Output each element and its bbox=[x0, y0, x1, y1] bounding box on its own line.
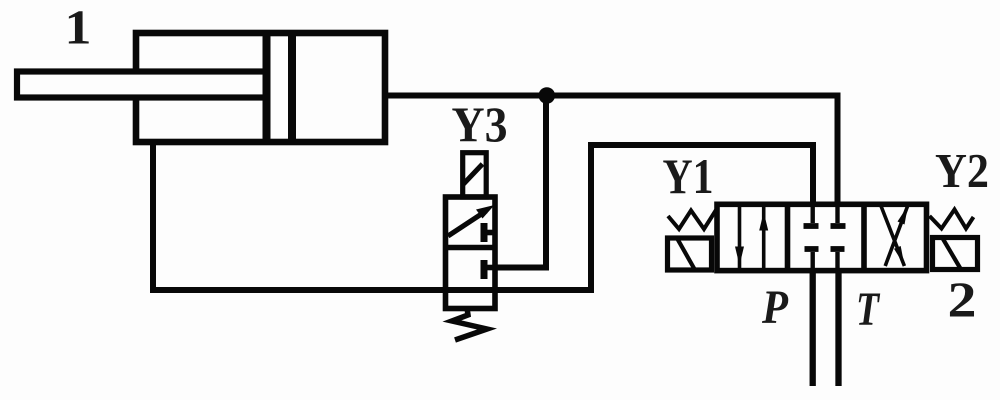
valve 2 left spring bbox=[668, 210, 716, 229]
valve Y3 return spring bbox=[452, 308, 487, 340]
valve 2 left cell down arrow bbox=[735, 204, 744, 270]
valve Y3 blocked port upper bbox=[484, 223, 495, 242]
svg-text:Y2: Y2 bbox=[935, 145, 989, 198]
solenoid Y2 box bbox=[933, 238, 978, 270]
svg-text:P: P bbox=[761, 281, 788, 334]
svg-text:T: T bbox=[856, 283, 880, 336]
svg-text:2: 2 bbox=[948, 271, 977, 327]
valve 2 right spring bbox=[930, 210, 974, 229]
solenoid Y1 box bbox=[668, 238, 712, 270]
cylinder 1 body bbox=[136, 33, 385, 142]
valve 2 left cell up arrow bbox=[759, 204, 768, 270]
valve Y3 solenoid bbox=[463, 153, 487, 197]
valve Y3 body bbox=[446, 197, 496, 309]
valve 2 body (3 position 4 way) bbox=[717, 204, 927, 270]
wire from junction down to valve Y3 right port bbox=[494, 96, 546, 268]
svg-text:Y3: Y3 bbox=[452, 96, 508, 152]
cylinder 1 piston bbox=[267, 36, 293, 139]
valve Y3 blocked port lower bbox=[484, 260, 495, 279]
wire from cylinder rod side around to valve 2 (lower pipe) bbox=[153, 142, 813, 290]
wire T line down bbox=[835, 271, 841, 386]
node junction on top pipe bbox=[539, 87, 556, 104]
wire from cylinder head side to valve 2 T-port (top pipe) bbox=[385, 96, 838, 207]
valve 2 center cell blocked ports bbox=[804, 204, 846, 270]
svg-text:Y1: Y1 bbox=[663, 148, 714, 204]
valve Y3 flow arrow (upper cell) bbox=[448, 205, 495, 236]
valve 2 right cell crossed arrows bbox=[881, 206, 908, 267]
svg-text:1: 1 bbox=[65, 0, 92, 55]
cylinder 1 piston rod bbox=[17, 72, 267, 98]
wire P line down bbox=[810, 271, 816, 386]
